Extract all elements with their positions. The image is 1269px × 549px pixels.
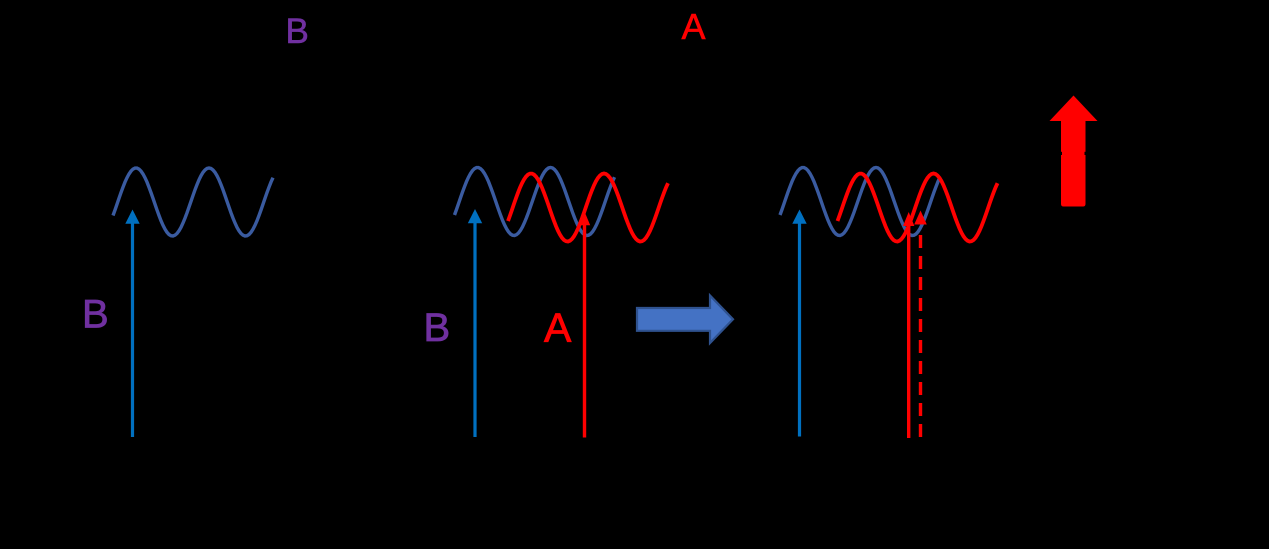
- svg-text:B: B: [82, 293, 109, 337]
- arrow B panel 2 (blue vertical): [468, 209, 482, 437]
- arrow B panel 1 (blue vertical): [125, 210, 139, 438]
- svg-text:B: B: [424, 306, 451, 350]
- wave B panel 3 (blue sine): [780, 168, 940, 236]
- arrow A panel 2 (red vertical): [579, 212, 590, 438]
- arrow A panel 3 solid (red vertical): [903, 212, 914, 438]
- wave A panel 2 (red sine): [508, 174, 668, 242]
- svg-text:A: A: [544, 305, 572, 351]
- svg-text:B: B: [286, 12, 309, 51]
- big red up arrow: [1050, 96, 1098, 207]
- svg-text:A: A: [682, 6, 706, 47]
- wave B panel 1 (blue sine): [113, 168, 273, 236]
- wave B panel 2 (blue sine): [455, 168, 615, 236]
- block arrow (blue right arrow): [637, 296, 733, 344]
- arrow A panel 3 dashed (red vertical dashed): [914, 211, 927, 438]
- arrow B panel 3 (blue vertical): [792, 210, 806, 437]
- wave A panel 3 (red sine): [838, 174, 998, 242]
